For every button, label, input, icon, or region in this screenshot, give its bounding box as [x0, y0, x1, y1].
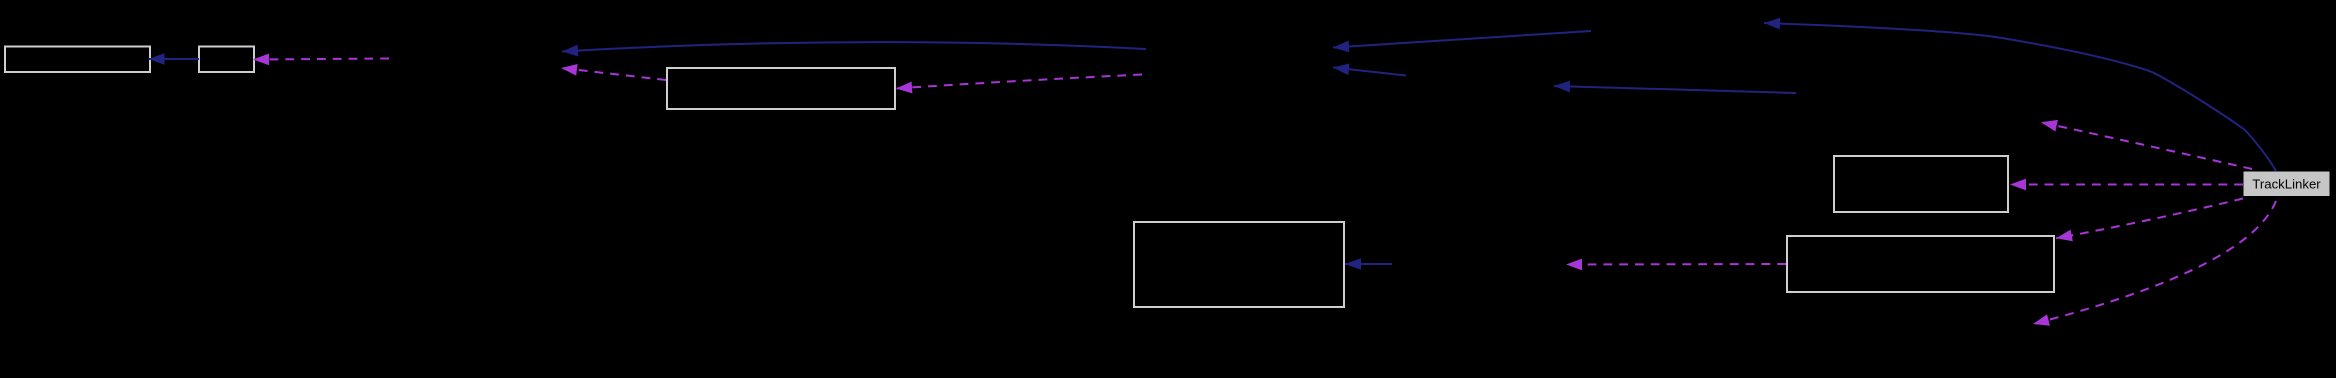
inheritance arrow E6 (mid hidden nodes): [1554, 86, 1796, 93]
usage arrow M8 (dashed TrackLinker down-left curve): [2033, 201, 2276, 324]
svg-text:TrackLinker: TrackLinker: [2252, 177, 2321, 192]
inheritance arrow E1 (B2 to B1): [149, 58, 200, 60]
node box B2 (small class right of B1): [199, 47, 254, 73]
usage arrow M6 (dashed TrackLinker to B6 corner): [2056, 199, 2243, 239]
usage arrow M1 (dashed into B2): [253, 59, 389, 60]
node box B1 (top-left class): [5, 47, 150, 73]
usage arrow M5 (dashed TrackLinker up-left): [2041, 122, 2252, 169]
node box B6 (wide class lower right): [1787, 236, 2054, 292]
inheritance arrow E5 (TrackLinker up to top hidden node): [1764, 23, 2276, 171]
inheritance arrow E7 (into B4): [1345, 263, 1392, 265]
usage arrow M3 (dashed into B3 right side): [896, 75, 1142, 89]
inheritance arrow E4 (short mid-top): [1333, 68, 1406, 76]
usage arrow M2 (dashed from B3 to left hidden node): [561, 68, 666, 80]
node box B5 (class right-middle): [1834, 156, 2008, 212]
node TrackLinker (filled grey current-class node): [2244, 172, 2330, 197]
inheritance arrow E3 (mid-top hidden nodes): [1333, 31, 1591, 48]
usage arrow M7 (dashed from B6 to left hidden node): [1566, 263, 1786, 266]
node box B4 (large class lower middle): [1134, 222, 1344, 307]
node box B3 (wide class upper middle): [667, 68, 895, 109]
usage arrow M4 (dashed TrackLinker to B5): [2010, 184, 2243, 186]
inheritance arrow E2 (long curve to far-left hidden node): [562, 42, 1146, 51]
